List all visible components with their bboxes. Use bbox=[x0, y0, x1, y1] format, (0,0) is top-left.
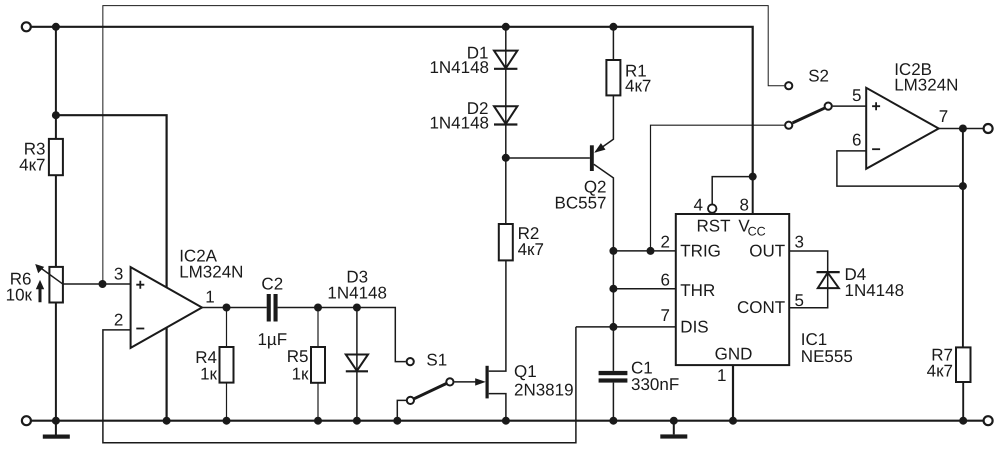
wire R3 top lead from rail bbox=[55, 27, 57, 139]
svg-text:R5: R5 bbox=[287, 347, 309, 366]
svg-text:OUT: OUT bbox=[749, 242, 785, 261]
capacitor C1 bbox=[599, 371, 628, 375]
node output / R7 junction bbox=[959, 125, 967, 133]
diode D3 bbox=[356, 308, 358, 421]
wire op-amp pin 6 feedback loop bbox=[837, 151, 963, 186]
svg-text:NE555: NE555 bbox=[801, 347, 853, 366]
op-amp IC2B minus input mark bbox=[872, 148, 880, 150]
wire OUT pin 3 to D4 bbox=[789, 251, 828, 308]
wire op-amp IC2B output bbox=[939, 128, 984, 130]
resistor R5 bbox=[317, 308, 319, 348]
node collector / TRIG junction bbox=[609, 247, 617, 255]
node THR junction bbox=[609, 285, 617, 293]
potentiometer R6 arrow bbox=[40, 267, 63, 284]
node D2 / R2 / Q2 base junction bbox=[502, 154, 510, 162]
IC U2 IC1 NE555 body bbox=[676, 214, 789, 365]
svg-text:4: 4 bbox=[694, 195, 703, 214]
wire Q1 drain bbox=[489, 260, 506, 371]
svg-text:1к: 1к bbox=[292, 365, 309, 384]
wire S2 pole to op-amp pin 5 bbox=[833, 105, 867, 107]
node ground rail at R4 bbox=[223, 417, 231, 425]
op-amp U1 IC2A triangle bbox=[131, 267, 202, 348]
node ground rail at R5 bbox=[314, 417, 322, 425]
svg-text:330nF: 330nF bbox=[631, 375, 679, 394]
wire negative/ground rail bottom bbox=[31, 420, 983, 422]
svg-text:1N4148: 1N4148 bbox=[845, 281, 905, 300]
op-amp U3 IC2B triangle bbox=[866, 88, 939, 169]
wire S1 lower contact to ground rail bbox=[397, 400, 406, 420]
svg-text:S1: S1 bbox=[426, 351, 447, 370]
switch S2 lever bbox=[793, 108, 825, 123]
switch S2 upper contact bbox=[785, 82, 792, 89]
node pin1 / ground rail bbox=[729, 417, 737, 425]
RST pin 4 inversion circle bbox=[708, 204, 716, 212]
op-amp IC2A minus input mark bbox=[136, 328, 144, 330]
svg-text:DIS: DIS bbox=[680, 318, 708, 337]
svg-text:CONT: CONT bbox=[737, 298, 785, 317]
switch S1 lower contact bbox=[407, 397, 414, 404]
svg-text:1N4148: 1N4148 bbox=[429, 114, 489, 133]
node wiper / select line junction bbox=[99, 280, 107, 288]
diode D4 bbox=[817, 271, 840, 273]
switch S2 pole contact bbox=[825, 103, 832, 110]
svg-text:5: 5 bbox=[852, 86, 861, 105]
switch S1 lever bbox=[414, 384, 446, 399]
node R3 top / supply branch bbox=[52, 111, 60, 119]
svg-text:TRIG: TRIG bbox=[680, 242, 721, 261]
wire op-amp IC2A output bbox=[202, 307, 267, 309]
node rail A / D1 branch bbox=[502, 23, 510, 31]
op-amp IC2B plus input mark bbox=[872, 102, 880, 110]
transistor Q2 emitter lead bbox=[596, 95, 614, 151]
svg-text:2: 2 bbox=[661, 233, 670, 252]
svg-text:1: 1 bbox=[205, 288, 214, 307]
svg-text:S2: S2 bbox=[808, 67, 829, 86]
wire op-amp pin 2 feedback to DIS line bbox=[103, 327, 576, 443]
svg-text:1к: 1к bbox=[200, 365, 217, 384]
resistor R3 bbox=[49, 139, 63, 175]
svg-text:10к: 10к bbox=[6, 286, 33, 305]
svg-text:C2: C2 bbox=[261, 275, 283, 294]
svg-text:LM324N: LM324N bbox=[894, 75, 958, 94]
svg-text:7: 7 bbox=[661, 306, 670, 325]
wire RST pin 4 to VCC node bbox=[712, 177, 753, 205]
terminal bottom-right bbox=[984, 416, 993, 425]
node D3 top junction bbox=[353, 304, 361, 312]
svg-text:1N4148: 1N4148 bbox=[429, 58, 489, 77]
resistor R1 bbox=[612, 27, 614, 60]
wire Q1 source to ground rail bbox=[489, 394, 506, 421]
svg-text:3: 3 bbox=[795, 233, 804, 252]
svg-text:8: 8 bbox=[740, 196, 749, 215]
R6 trim direction arrow bbox=[36, 280, 44, 302]
node ground rail at R7 bbox=[959, 417, 967, 425]
resistor R7 bbox=[962, 129, 964, 348]
transistor Q2 base bar bbox=[590, 145, 594, 171]
svg-text:4к7: 4к7 bbox=[518, 240, 544, 259]
svg-text:1N4148: 1N4148 bbox=[327, 284, 387, 303]
svg-text:CC: CC bbox=[748, 224, 766, 238]
node VCC / RST junction bbox=[749, 173, 757, 181]
svg-text:4к7: 4к7 bbox=[19, 156, 45, 175]
ground symbol left bbox=[55, 421, 57, 435]
node ground rail at D3 bbox=[353, 417, 361, 425]
node output / R4 junction bbox=[223, 304, 231, 312]
wire VCC pin 8 bbox=[752, 177, 754, 215]
wire GND pin 1 to ground rail bbox=[732, 365, 734, 421]
terminal bottom-left bbox=[22, 416, 31, 425]
node ground rail at S1 bbox=[393, 417, 401, 425]
transistor Q1 gate bar bbox=[486, 366, 489, 399]
svg-text:2: 2 bbox=[114, 311, 123, 330]
svg-text:1µF: 1µF bbox=[257, 330, 287, 349]
node ground rail at R6 bbox=[52, 417, 60, 425]
transistor Q2 collector lead bbox=[594, 164, 614, 371]
switch S1 pole contact bbox=[446, 378, 453, 385]
terminal top-left bbox=[22, 22, 31, 31]
svg-text:THR: THR bbox=[680, 281, 715, 300]
ground symbol middle bbox=[673, 421, 675, 435]
wire DIS pin 7 bbox=[576, 326, 676, 328]
capacitor C2 bbox=[267, 294, 271, 322]
svg-text:6: 6 bbox=[852, 130, 861, 149]
wire THR pin 6 bbox=[613, 288, 676, 290]
svg-text:5: 5 bbox=[795, 291, 804, 310]
svg-text:1: 1 bbox=[717, 366, 726, 385]
node ground rail at C1 bbox=[609, 417, 617, 425]
svg-text:GND: GND bbox=[715, 345, 753, 364]
svg-text:2N3819: 2N3819 bbox=[514, 381, 574, 400]
wire C2 to D3 node and S1 bbox=[278, 308, 406, 362]
switch S1 upper contact bbox=[407, 358, 414, 365]
wire TRIG select line to S2 lower contact bbox=[651, 125, 785, 251]
node TRIG / select junction bbox=[647, 247, 655, 255]
wire R6 wiper to op-amp pin 3 bbox=[63, 283, 131, 285]
svg-text:4к7: 4к7 bbox=[625, 77, 651, 96]
wire thin select line from pin3 node to S2 upper contact bbox=[103, 6, 784, 284]
diode D2 bbox=[494, 106, 517, 124]
wire supply branch to op-amp power line bbox=[56, 115, 167, 421]
diode D1 bbox=[505, 27, 507, 224]
svg-text:4к7: 4к7 bbox=[927, 362, 953, 381]
node C2 / R5 junction bbox=[314, 304, 322, 312]
svg-text:3: 3 bbox=[114, 264, 123, 283]
node ground rail at middle ground symbol bbox=[670, 417, 678, 425]
node DIS junction bbox=[609, 323, 617, 331]
op-amp IC2A plus input mark bbox=[136, 281, 144, 289]
svg-text:RST: RST bbox=[697, 217, 731, 236]
node rail A / R1 branch bbox=[609, 23, 617, 31]
svg-text:6: 6 bbox=[661, 271, 670, 290]
wire positive supply rail top bbox=[31, 27, 753, 177]
node rail A / R3 branch bbox=[52, 23, 60, 31]
node feedback / output junction bbox=[959, 182, 967, 190]
resistor R2 bbox=[499, 224, 513, 260]
potentiometer R6 bbox=[49, 267, 63, 303]
node ground rail at op-amp power line bbox=[163, 417, 171, 425]
wire R6 bottom lead to ground rail bbox=[55, 303, 57, 421]
resistor R4 bbox=[226, 308, 228, 348]
wire S1 pole to Q1 gate with arrow bbox=[454, 381, 477, 383]
svg-text:7: 7 bbox=[939, 107, 948, 126]
node ground rail at Q1 source bbox=[502, 417, 510, 425]
wire TRIG pin 2 bbox=[613, 250, 676, 252]
switch S2 lower contact bbox=[785, 122, 792, 129]
wire R3 to R6 bbox=[55, 175, 57, 267]
svg-text:Q1: Q1 bbox=[514, 362, 537, 381]
terminal top-right bbox=[984, 124, 993, 133]
svg-text:LM324N: LM324N bbox=[179, 263, 243, 282]
wire Q2 base bbox=[506, 157, 590, 159]
svg-text:BC557: BC557 bbox=[555, 194, 607, 213]
